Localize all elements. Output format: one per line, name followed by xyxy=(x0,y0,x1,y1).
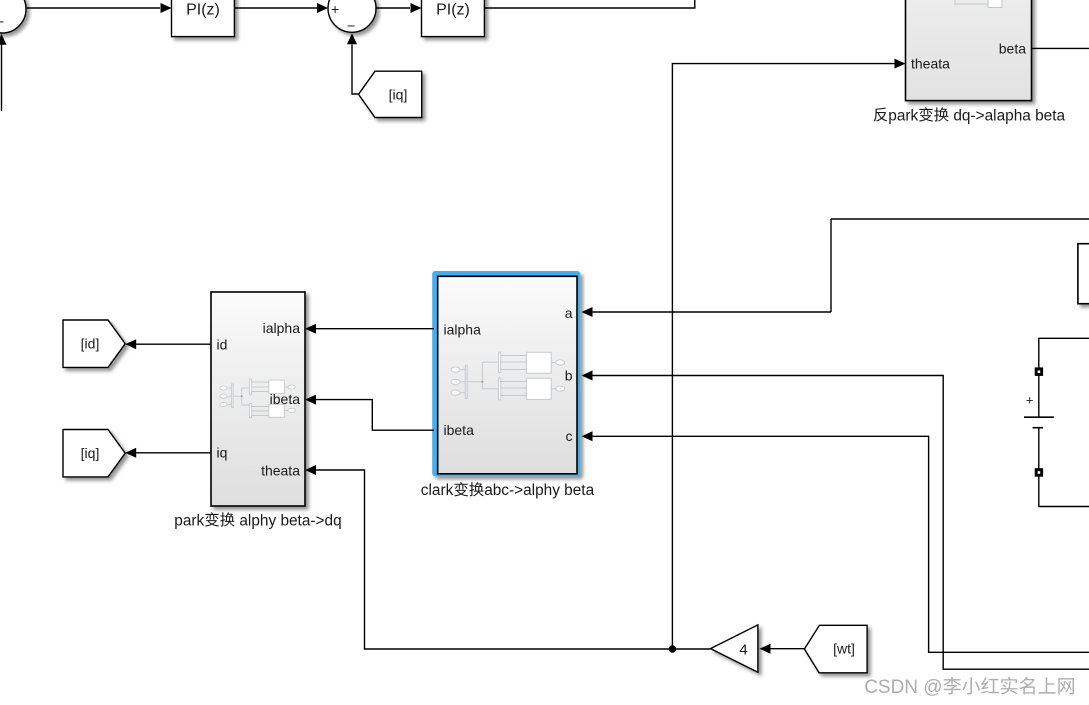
wire phase b into clark xyxy=(582,371,1089,670)
U3 preview icon xyxy=(451,352,565,400)
From tag [wt] xyxy=(804,625,867,673)
PI controller block P2 PI(z) xyxy=(422,0,485,37)
junction node on trunk at gain output line xyxy=(669,645,677,653)
wire P1 to sum S2 xyxy=(234,3,328,13)
subsystem U2 park transform block xyxy=(211,292,305,506)
wire phase c into clark xyxy=(582,431,1089,652)
svg-text:ibeta: ibeta xyxy=(444,422,475,438)
wire from [iq] tag into sum S2 bottom xyxy=(347,33,359,94)
svg-text:park: park xyxy=(888,107,918,124)
svg-text:ialpha: ialpha xyxy=(263,320,301,336)
svg-text:id: id xyxy=(217,337,228,353)
svg-text:theata: theata xyxy=(911,56,950,72)
svg-text:[iq]: [iq] xyxy=(389,86,408,102)
svg-text:c: c xyxy=(566,428,573,444)
wire phase a into clark xyxy=(582,219,1089,317)
svg-text:abc->alphy beta: abc->alphy beta xyxy=(484,482,594,499)
wire sum S1 to PI(z) P1 xyxy=(26,3,172,13)
wire battery + terminal up and right xyxy=(1039,338,1089,368)
battery short plate xyxy=(1033,427,1044,429)
wire sum S2 to PI(z) P2 xyxy=(376,3,422,13)
wire beta output to right edge xyxy=(1032,47,1089,49)
U1 icon fragment xyxy=(955,0,1002,8)
svg-text:clark: clark xyxy=(421,482,454,499)
svg-text:PI(z): PI(z) xyxy=(436,2,470,19)
svg-text:CSDN @: CSDN @ xyxy=(864,677,942,698)
svg-text:[id]: [id] xyxy=(81,336,100,352)
svg-text:theata: theata xyxy=(261,463,300,479)
U1 label: inv park transform dq->alapha beta xyxy=(874,108,888,122)
svg-text:PI(z): PI(z) xyxy=(186,2,220,19)
svg-text:[wt]: [wt] xyxy=(833,641,855,657)
wire park id output to [id] tag xyxy=(125,339,211,349)
Goto tag [iq] lower xyxy=(63,430,125,477)
wire clark ibeta to park ibeta xyxy=(305,395,434,431)
wire P2 output going right then up off-screen xyxy=(484,0,694,8)
wire [wt] tag to gain input xyxy=(760,644,805,654)
battery DC source E1 xyxy=(1024,338,1089,506)
svg-text:+: + xyxy=(331,1,339,17)
svg-text:+: + xyxy=(1026,393,1034,408)
svg-text:−: − xyxy=(347,18,355,34)
partially visible block at right edge xyxy=(1078,244,1089,304)
sum block S1 (partial, top-left) xyxy=(0,0,26,33)
arrow into inv-park theata input xyxy=(895,59,906,69)
From tag [iq] upper xyxy=(359,71,422,117)
wire gain output to park theata xyxy=(305,465,710,649)
svg-text:[iq]: [iq] xyxy=(81,445,100,461)
svg-text:a: a xyxy=(565,305,573,321)
subsystem U1 inverse park transform block xyxy=(906,0,1032,101)
battery + connection port square xyxy=(1035,368,1042,375)
svg-text:park: park xyxy=(174,512,204,529)
svg-text:4: 4 xyxy=(739,641,747,658)
U2 preview icon xyxy=(220,379,295,418)
svg-text:b: b xyxy=(565,368,573,384)
battery - connection port square xyxy=(1035,469,1042,476)
svg-text:alphy beta->dq: alphy beta->dq xyxy=(235,512,342,529)
wire into sum S1 from below xyxy=(0,34,7,111)
svg-text:ialpha: ialpha xyxy=(444,321,482,337)
PI controller block P1 PI(z) xyxy=(172,0,235,37)
svg-text:−: − xyxy=(0,14,4,30)
sum block S2 xyxy=(328,0,376,32)
Goto tag [id] xyxy=(63,320,125,367)
svg-text:iq: iq xyxy=(217,444,228,460)
wire park iq output to [iq] tag xyxy=(125,448,211,458)
battery long plate xyxy=(1024,416,1054,418)
wire battery - terminal down and right xyxy=(1039,476,1089,507)
svg-text:dq->alapha beta: dq->alapha beta xyxy=(949,107,1065,124)
subsystem U3 clark transform block (selected highlight) xyxy=(433,272,579,475)
wire clark ialpha to park ialpha xyxy=(305,324,434,334)
wire trunk from gain up to inv-park theata xyxy=(672,64,894,649)
gain block G1 value 4 xyxy=(711,625,758,672)
svg-text:beta: beta xyxy=(999,40,1026,56)
